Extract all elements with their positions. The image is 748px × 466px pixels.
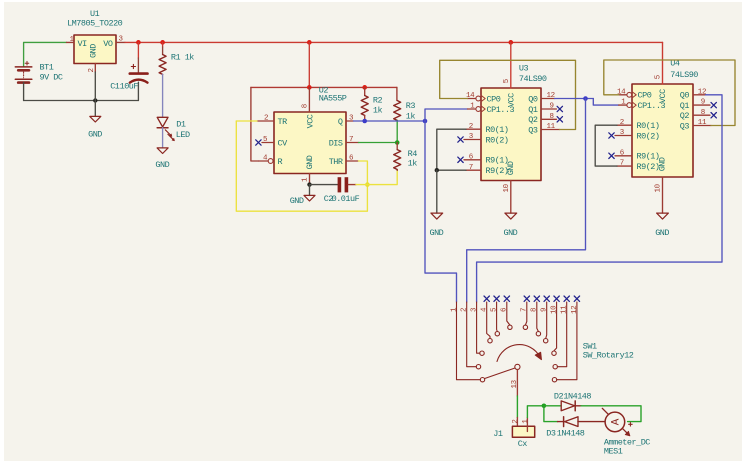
svg-text:GND: GND [506,161,516,175]
resistor R1 1k [159,55,166,75]
svg-text:R9(2): R9(2) [637,162,660,172]
svg-text:GND: GND [305,155,315,169]
no-connect X on CV [256,140,261,145]
svg-text:10: 10 [503,183,511,192]
wire U3 Q0 to U4 CP1 (blue) [593,99,619,106]
svg-text:8: 8 [550,113,554,121]
svg-text:74LS90: 74LS90 [519,74,547,84]
no-connect X marks on sw pins 4-12 [484,296,580,301]
wire node to R4 top [396,143,398,150]
wire TR yellow stub [236,120,257,122]
no-connect X on U4 Q1 [711,102,716,107]
svg-text:VCC: VCC [658,89,668,103]
pin 3 U3 R0(2) [464,139,481,141]
wire U3 Q0 out (blue) [555,98,594,100]
wire Q net 555 to branch point (blue) [354,120,426,122]
junction R1 on rail [160,40,165,45]
svg-text:Q: Q [338,117,343,127]
pin 6 U4 R9(1) [615,155,632,157]
counter U4 74LS90 [632,84,693,177]
svg-text:Q1: Q1 [680,101,690,111]
junction meter loop split (green) [542,404,547,409]
no-connect X on U3 Q2 [557,117,562,122]
wire U2 GND drop (dark) [309,185,311,196]
wire Q to U3 CP1 (blue) [425,109,468,121]
sw pin 2 [467,302,477,367]
ground symbol under U1 [90,116,101,122]
pin 10 U3 GND [510,181,512,214]
wire R1 to D1 (violet) [162,74,164,117]
svg-text:C1: C1 [110,81,120,91]
pin 9 U3 Q1 [541,108,557,110]
sw pin 4 [487,302,490,339]
sw contact 3 [480,351,484,355]
svg-text:7: 7 [349,136,353,144]
svg-text:GND: GND [290,196,304,206]
wire 555 VCC rail (red) [251,86,397,88]
wire D2 cathode to right leg (green) [581,406,641,422]
diode D2 1N4148 [561,401,581,411]
pin 12 U4 Q0 [693,94,706,96]
pin 10 U4 GND [662,177,664,213]
svg-text:VI: VI [78,39,88,49]
svg-text:2: 2 [512,419,520,423]
sw rotor common [515,364,520,369]
svg-text:SW_Rotary12: SW_Rotary12 [583,351,634,361]
svg-text:D3: D3 [546,429,556,439]
sw pin 5 [496,302,499,332]
wire VCC rail to R pin 4 (dark red) [251,87,259,161]
pin 2 U4 R0(1) [617,124,632,126]
pin 11 U3 Q3 [541,129,560,131]
svg-text:Cx: Cx [518,439,528,449]
wire J1 pin1 up to meter loop (green) [527,406,544,418]
junction 555 VCC riser on rail [307,40,312,45]
pin 5 U4 VCC riser (red) [662,42,664,84]
pin 3 U1 [116,41,125,43]
wire U4 reset tie (dark) [595,125,617,166]
svg-text:9V DC: 9V DC [40,73,63,83]
svg-text:NA555P: NA555P [319,94,347,104]
sw contact 12 [552,378,556,382]
svg-text:CV: CV [278,138,289,148]
wire U1 GND pin to ground bus (dark) [94,72,96,116]
pin 4 U2 R (inverted) [259,160,268,162]
wire U4 Q3 feedback to CP0 (khaki) [604,60,735,126]
no-connect X on U3 R0(2) [458,137,463,142]
pin 3 U4 R0(2) [615,135,632,137]
sw contact 4 [488,339,492,343]
svg-text:1N4148: 1N4148 [563,391,591,401]
svg-text:10: 10 [551,305,559,314]
svg-text:11: 11 [698,119,707,127]
diode D3 1N4148 [558,417,605,427]
wire pin13 to J1 pin2 (green) [516,396,518,418]
pin 1 U3 CP1 (inverted clock) [468,108,476,110]
svg-text:D2: D2 [554,391,564,401]
svg-text:A: A [610,418,622,425]
pin 1 J1 [526,418,528,432]
sw contact 5 [495,332,499,336]
pin 8 U2 VCC [308,87,310,112]
svg-text:1k: 1k [406,111,416,121]
wire VCC rail corner to R3 (red) [396,87,398,100]
wire C1 to ground bus (dark) [137,82,139,100]
pin 6 U2 THR [346,160,359,162]
ground symbol U3 resets [431,213,443,219]
sw pin 1 [457,302,481,380]
wire battery positive to VI (green) [24,42,67,66]
junction yellow at C2/R4 [365,182,370,187]
battery BT1 [15,61,32,82]
wire rail riser to 555 VCC rail (red) [308,42,310,87]
svg-text:11: 11 [547,123,556,131]
sw contact 9 [544,339,548,343]
pin 7 U3 R9(2) [466,169,481,171]
wire U3 reset tie to ground (dark) [436,170,438,213]
no-connect X on U4 R9(1) [609,153,614,158]
no-connect X on U4 R0(2) [609,133,614,138]
pin 6 U3 R9(1) [464,159,481,161]
sw pin 13 wire to J1 [516,370,518,397]
wire C2 right to yellow junction [356,184,367,186]
capacitor C2 0.01uF [338,177,342,192]
junction R2 on Q net [362,119,367,124]
svg-text:12: 12 [571,306,579,314]
svg-text:GND: GND [657,157,667,171]
junction ground bus [93,98,97,102]
svg-text:2: 2 [264,115,268,123]
pin 8 U4 Q2 [693,114,710,116]
wire R2 bottom to Q net [364,115,366,121]
sw pin 12 [557,302,577,380]
wire U3 Q3 feedback to CP0 (khaki) [440,60,576,129]
wire yellow feedback loop TR to THR [236,121,367,211]
svg-text:9: 9 [541,308,549,312]
sw rotor arm [485,368,515,379]
svg-text:12: 12 [547,92,555,100]
resistor R2 1k [361,96,368,116]
pin 1 U2 GND [309,174,311,185]
no-connect X on U3 R9(1) [458,157,463,162]
junction U2 GND pin / C2 [307,182,311,186]
pin 2 U1 [94,64,96,73]
svg-text:VO: VO [103,39,113,49]
pin 3 U2 Q [346,120,354,122]
junction U3 Q0 branch [583,96,588,101]
sw rotation arc [497,345,540,362]
svg-text:GND: GND [429,228,443,238]
svg-text:Q2: Q2 [680,111,690,121]
svg-text:Q2: Q2 [528,115,538,125]
pin 1 U1 [67,41,75,43]
svg-text:12: 12 [698,88,706,96]
pin 11 U4 Q3 [693,125,711,127]
pin 9 U4 Q1 [693,104,710,106]
ground symbol U4 pin10 [657,213,669,219]
svg-text:Q0: Q0 [528,94,538,104]
svg-text:R0(2): R0(2) [486,135,509,145]
svg-text:9: 9 [550,103,554,111]
junction C1 on rail [136,40,141,45]
wire U4 Q0 down to switch pin3 (blue) [477,95,722,302]
svg-text:R2: R2 [373,95,383,105]
capacitor C1 10uF [130,64,148,82]
svg-text:R4: R4 [408,149,418,159]
sw pin 3 [477,302,480,353]
ground symbol under D1 [157,148,168,154]
sw contact 1 [480,378,484,382]
svg-text:7: 7 [469,164,473,172]
svg-text:8: 8 [531,308,539,312]
svg-text:BT1: BT1 [40,63,54,73]
svg-text:R1 1k: R1 1k [171,53,194,63]
svg-text:0.01uF: 0.01uF [332,194,360,204]
svg-text:CP0: CP0 [638,91,652,101]
svg-text:GND: GND [503,228,517,238]
svg-text:8: 8 [302,104,310,108]
pin 7 U2 DIS [346,142,359,144]
pin 14 U4 CP0 (inverted clock) [619,94,627,96]
junction U3 VCC riser on rail [508,40,513,45]
svg-text:10: 10 [655,183,663,192]
svg-text:1N4148: 1N4148 [557,429,585,439]
svg-text:R0(2): R0(2) [637,131,660,141]
svg-text:R0(1): R0(1) [486,125,509,135]
junction R2 on VCC rail [362,85,367,90]
sw contact 8 [536,332,540,336]
wire U3 reset tie (dark) [437,129,466,170]
wire ground bus bottom (dark) [24,100,139,102]
svg-text:GND: GND [155,160,169,170]
svg-text:R9(1): R9(1) [637,152,660,162]
wire VCC rail to R2 (red) [364,87,366,95]
svg-text:CP0: CP0 [487,94,501,104]
rotary switch SW1 [457,302,577,382]
pin 7 U4 R9(2) [617,165,632,167]
svg-text:Q1: Q1 [528,105,538,115]
svg-text:GND: GND [88,129,102,139]
sw pin 10 [554,302,557,351]
resistor R4 1k [394,150,401,171]
wire to D2 anode (green) [544,405,561,407]
pin 14 U3 CP0 (inverted clock) [468,98,476,100]
pin 2 J1 stub [516,418,518,432]
junction U3 reset tie [435,168,439,172]
svg-text:7: 7 [521,308,529,312]
svg-text:GND: GND [89,44,99,58]
sw contact 6 [508,325,512,329]
wire down-left leg to D3 (green) [544,406,558,422]
svg-text:13: 13 [511,379,519,388]
svg-text:MES1: MES1 [604,447,623,457]
svg-text:Q3: Q3 [680,121,690,131]
wire +5V rail (red) [125,41,663,43]
junction Q branch [423,119,428,124]
pin 5 U2 CV [262,142,274,144]
ground symbol under U2 [304,195,315,201]
svg-text:VCC: VCC [506,93,516,107]
pin 12 U3 Q0 [541,98,555,100]
junction 555 pin8 on VCC rail [307,85,312,90]
svg-text:GND: GND [655,228,669,238]
svg-text:7: 7 [620,160,624,168]
pin 2 U3 R0(1) [466,128,481,130]
wire Q down to switch pin1 (blue) [425,121,457,302]
wire U3 Q0 down to switch pin2 (blue) [467,99,586,303]
ammeter MES1 [602,408,632,436]
wire battery negative (dark) [23,83,25,101]
sw pin 11 [557,302,566,367]
svg-text:DIS: DIS [329,138,343,148]
svg-text:R0(1): R0(1) [637,121,660,131]
svg-text:11: 11 [561,305,569,314]
svg-text:R3: R3 [406,101,416,111]
sw pin 8 [537,302,539,332]
timer U2 NA555P [274,112,346,174]
svg-text:THR: THR [329,157,343,167]
sw pin 7 [525,302,526,325]
wire DIS to R3/R4 node (green) [359,142,398,144]
resistor R3 1k [394,101,401,121]
svg-text:1k: 1k [373,105,383,115]
svg-text:LED: LED [176,130,190,140]
svg-text:Q0: Q0 [680,91,690,101]
wire R3 bottom to DIS node (green) [396,120,398,142]
sw contact 10 [552,351,556,355]
ground symbol U3 pin10 [505,213,517,219]
svg-text:2: 2 [461,308,469,312]
svg-text:VCC: VCC [305,114,315,128]
junction DIS node (green) [395,140,400,145]
svg-text:TR: TR [278,117,288,127]
svg-text:U3: U3 [519,64,529,74]
no-connect X on U3 Q1 [557,106,562,111]
sw contact 7 [523,325,527,329]
sw arc arrowhead [535,352,541,359]
sw pin 6 [507,302,510,325]
svg-text:D1: D1 [176,120,186,130]
svg-text:1k: 1k [408,159,418,169]
pin 8 U3 Q2 [541,118,557,120]
counter U3 74LS90 [481,88,541,181]
wire D1 to ground (violet) [162,128,164,148]
regulator U1 LM7805_TO220 [74,35,116,64]
LED D1 [157,117,174,141]
svg-text:R: R [278,157,283,167]
svg-text:2: 2 [620,119,624,127]
svg-text:Q3: Q3 [528,125,538,135]
wire R4 bottom to yellow junction [367,170,397,184]
svg-text:J1: J1 [493,429,503,439]
pin 1 U4 CP1 (inverted clock) [619,104,627,106]
wire rail to C1 (red) [137,42,139,58]
sw contact 2 [476,365,480,369]
wire U2 GND to C2 left (dark) [310,184,338,186]
sw pin 9 [546,302,547,339]
svg-text:8: 8 [701,109,705,117]
connector J1 Cx [512,426,534,437]
svg-text:LM7805_TO220: LM7805_TO220 [67,18,123,28]
pin 2 U2 TR [257,120,274,122]
svg-text:74LS90: 74LS90 [670,70,698,80]
wire rail to R1 (red) [162,42,164,47]
no-connect X on U4 Q2 [711,113,716,118]
sw contact 11 [553,365,557,369]
pin 5 U3 VCC riser (red) [510,42,512,88]
svg-text:9: 9 [701,99,705,107]
svg-text:10uF: 10uF [120,81,139,91]
svg-text:2: 2 [469,123,473,131]
